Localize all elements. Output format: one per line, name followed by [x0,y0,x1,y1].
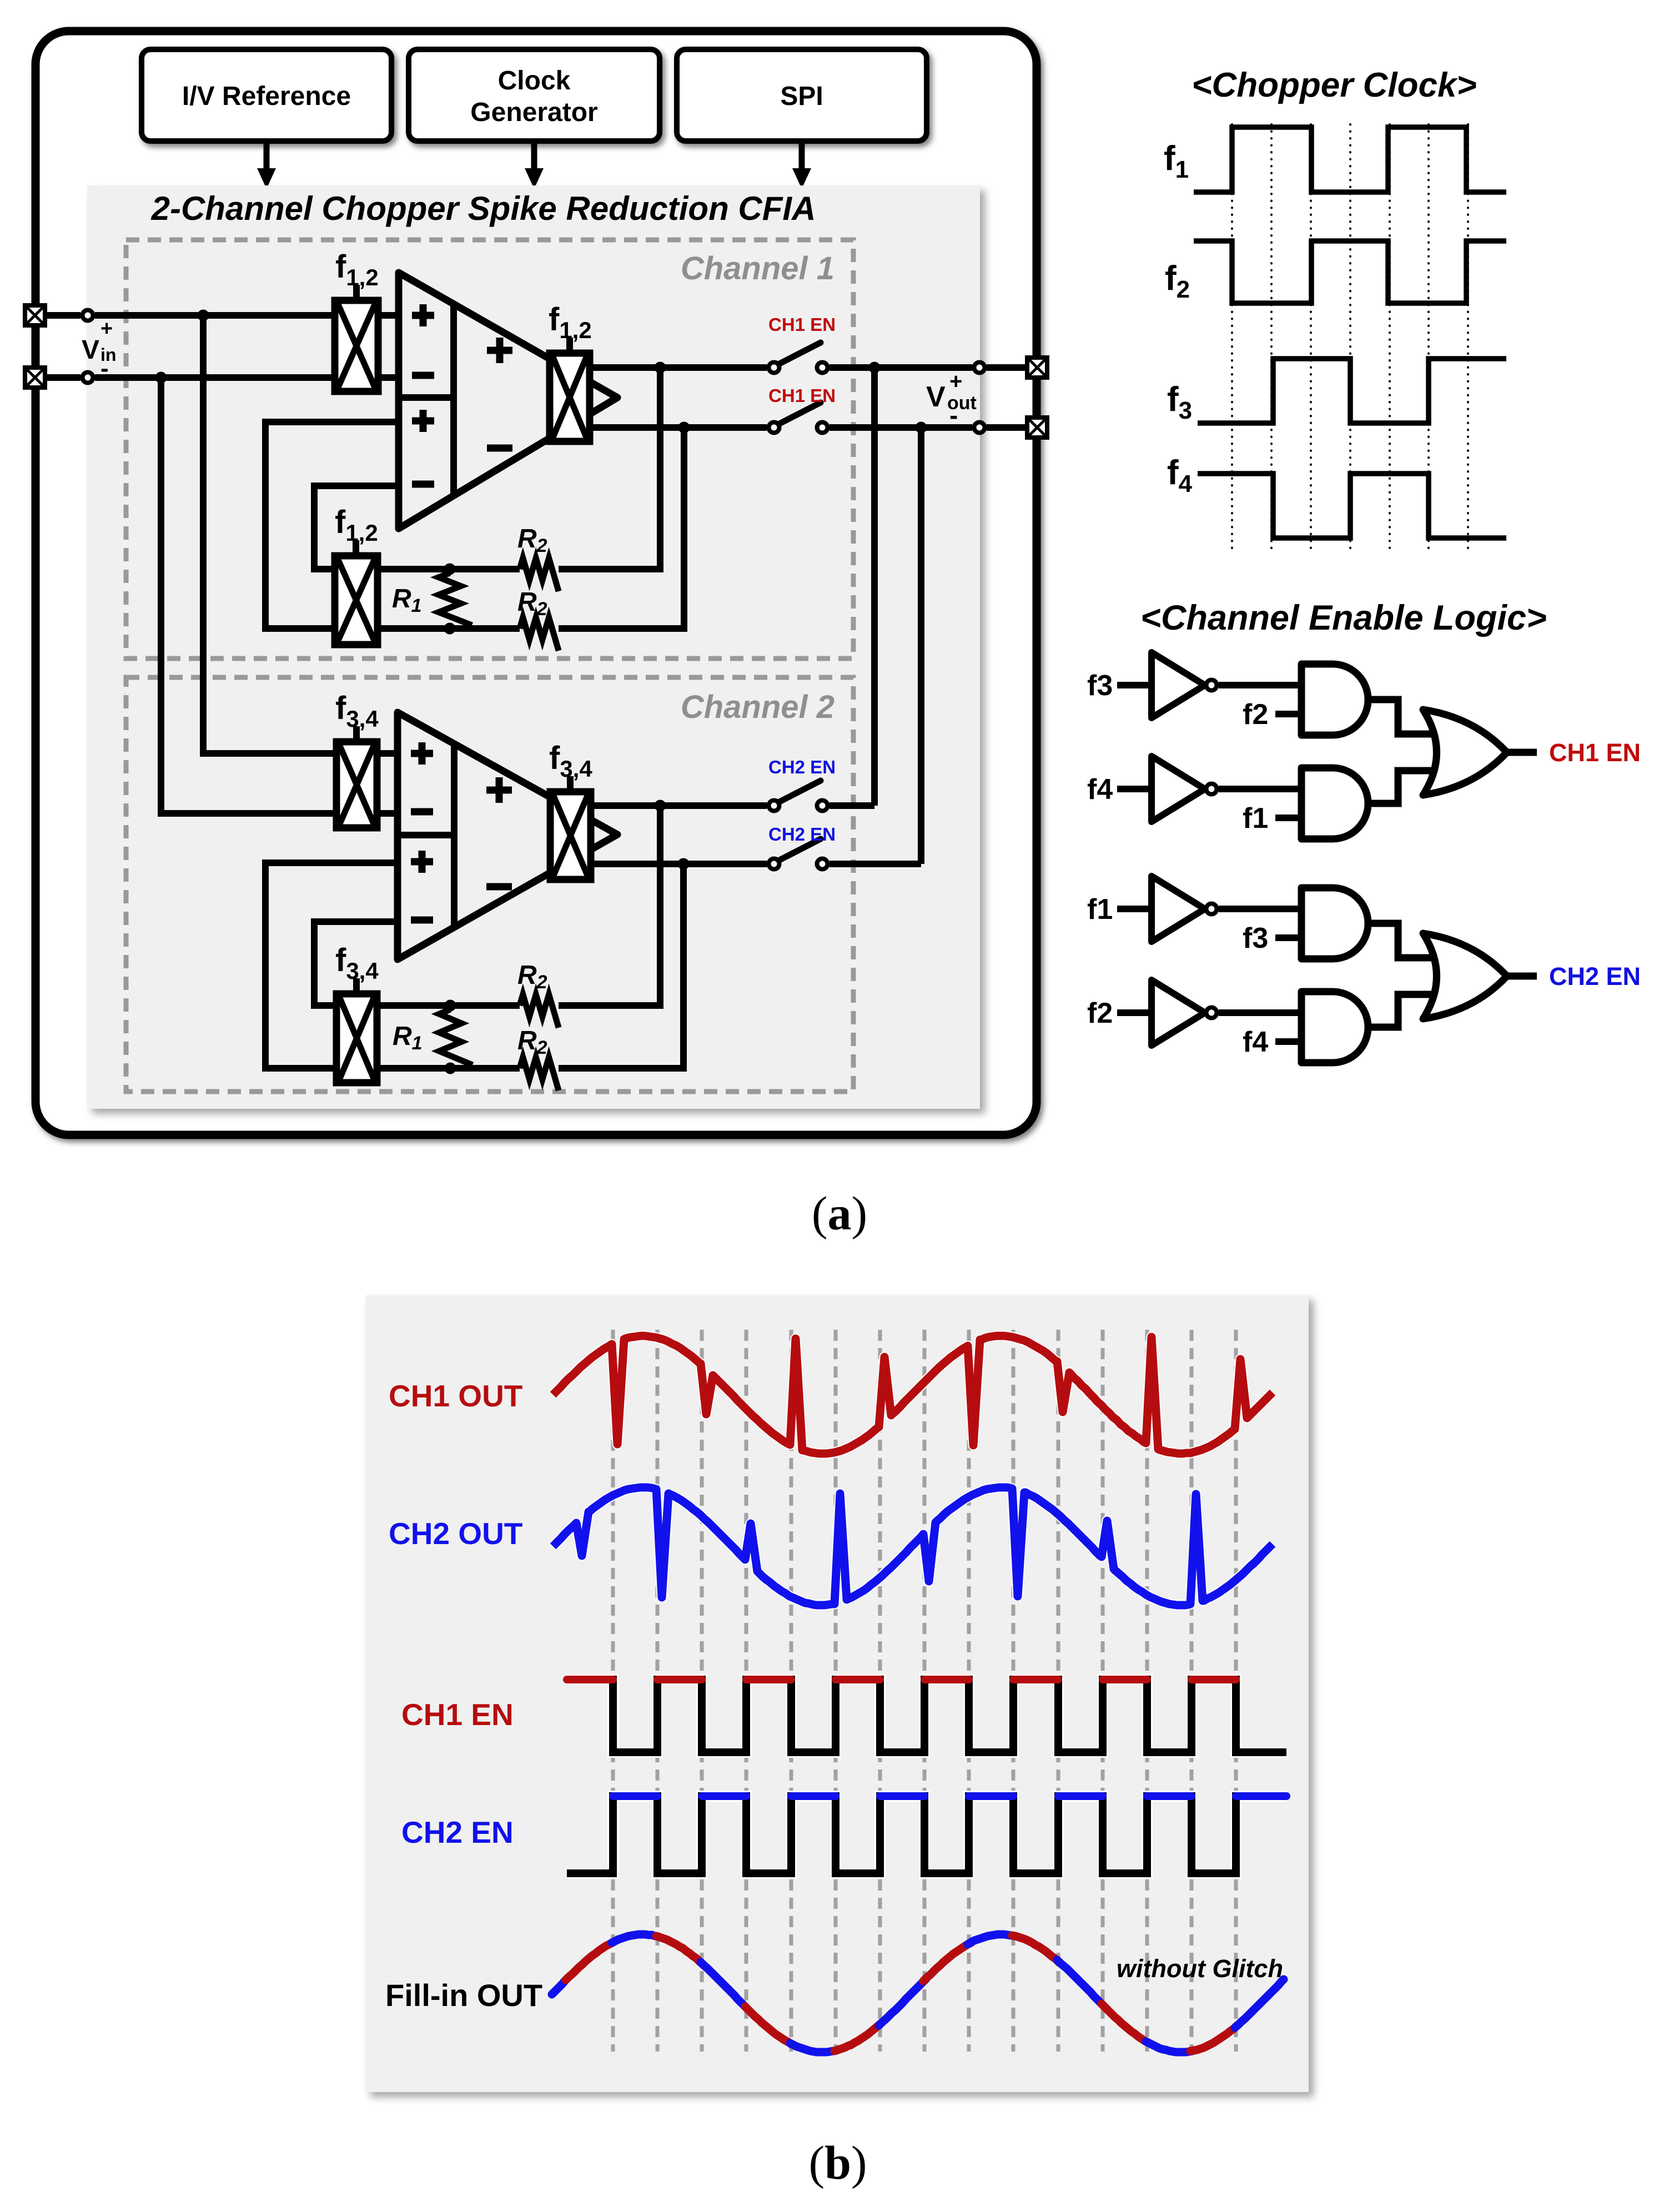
svg-text:V: V [926,381,946,413]
label f1,2 output chopper [549,301,592,353]
wire inverter to AND [1219,682,1301,688]
clock timing dotted gridlines [1232,124,1468,550]
wire R2 top to out+ node ch2 [559,806,660,1006]
wire A1 out+ to switch [590,364,767,371]
chopper CH1 feedback f1,2 [335,556,378,645]
resistor R1 channel2 [439,1009,472,1065]
pad Vin- [25,368,45,388]
panel gridlines [613,1330,1236,2052]
inverter U-f3 [1152,652,1217,718]
arrow from I/V Reference [257,143,276,189]
chopper CH2 input f3,4 [336,742,377,828]
svg-text:CH1 EN: CH1 EN [768,314,836,335]
svg-text:without Glitch: without Glitch [1117,1954,1283,1983]
svg-text:f4: f4 [1087,773,1113,806]
AND gate AND-f4 [1301,992,1368,1063]
op-amp A1 channel 1 [399,273,617,529]
label f3,4 output chopper [549,740,592,792]
resistor R2 channel1 bottom [520,617,559,651]
wire inverter to AND [1219,1009,1301,1016]
terminal circle Vout+ [974,363,985,373]
wire chopper1 out+ to amp [378,312,399,319]
inverter U-f2 [1152,980,1217,1045]
terminal circle Vin+ [83,310,93,321]
svg-text:<Chopper Clock>: <Chopper Clock> [1192,66,1476,104]
svg-text:SPI: SPI [780,82,823,111]
pad Vout- [1027,418,1047,438]
svg-text:CH2 EN: CH2 EN [1549,962,1641,991]
waveform f3 [1198,359,1506,423]
wire inverter to AND [1219,906,1301,912]
junction R1 bottom ch1 [444,623,456,635]
resistor R1 channel1 [439,573,472,625]
svg-text:f2: f2 [1087,997,1113,1029]
wire OR output [1507,749,1537,756]
wire switch to Vout- [829,424,972,431]
inverter U-f1 [1152,876,1217,942]
waveform CH1 OUT [553,1336,1273,1454]
wire f3 input [1275,934,1301,941]
svg-text:2-Channel Chopper Spike Reduct: 2-Channel Chopper Spike Reduction CFIA [151,190,816,227]
junction fb tap out- ch1 [678,422,690,434]
svg-text:(a): (a) [812,1187,867,1240]
pad Vin+ [25,305,45,325]
svg-text:Generator: Generator [470,98,597,127]
waveform CH2 OUT [553,1487,1273,1605]
wire f4 input [1275,1038,1301,1045]
junction fb tap out- ch2 [678,858,690,870]
AND gate AND-f2 [1301,664,1368,735]
svg-text:<Channel Enable Logic>: <Channel Enable Logic> [1140,599,1547,637]
svg-text:CH2 EN: CH2 EN [768,757,836,777]
wire A1 out- to switch [590,424,767,431]
svg-text:V: V [82,335,99,365]
junction fb tap out+ ch1 [655,362,666,374]
wire A1 fb+ to chopper [265,422,399,629]
svg-text:CH2 EN: CH2 EN [768,824,836,844]
wire fb chopper1 to R1/R2 top [378,566,520,572]
wire AND1 to OR [1368,700,1444,734]
waveform panel (b) [365,1295,1309,2092]
wire chopper1 out- to amp [378,374,399,381]
wire to pad Vout+ [987,364,1026,371]
wire f1 input [1117,906,1152,912]
svg-text:CH2 EN: CH2 EN [401,1815,514,1849]
chopper CH2 output f3,4 [550,792,591,879]
terminal circle Vout- [974,423,985,433]
waveform CH1 EN [567,1680,1286,1752]
terminal circle Vin- [83,373,93,383]
junction Vout- node [916,422,927,434]
wire OR output [1507,973,1537,980]
svg-text:f1: f1 [1087,893,1113,926]
Channel 1 dashed box [126,240,853,658]
pad Vout+ [1027,358,1047,378]
label Vin [82,317,116,382]
wire A2 out+ to switch [591,802,767,809]
junction R1 top ch1 [444,564,456,575]
OR gate OR-CH2 EN [1423,933,1507,1019]
wire f1 input [1275,815,1301,821]
svg-text:CH1 EN: CH1 EN [401,1697,514,1732]
wire fb chopper1 to R1/R2 bottom [378,625,520,632]
junction Vin- tap [155,372,167,384]
block SPI [677,49,927,141]
wire Vin- to chopper CH1 [46,374,335,381]
wire AND2 to OR [1368,994,1444,1027]
chopper CH1 input f1,2 [335,300,378,391]
wire R2 bottom to out- node ch2 [559,864,683,1068]
wire Vout- node to CH2 switch [918,428,924,864]
block Clock Generator [409,49,660,141]
junction Vout+ node [869,362,881,374]
switch CH2 EN bottom [769,839,828,869]
svg-text:f1: f1 [1243,802,1268,834]
waveform f2 [1194,241,1506,303]
wire CH2 switch to Vout- riser [829,861,921,867]
svg-text:f3: f3 [1087,670,1113,702]
switch CH1 EN bottom [769,403,828,433]
waveform CH2 EN [567,1796,1286,1873]
wire Vin- tap to chopper CH2 [161,378,336,813]
junction R1 top ch2 [445,1000,456,1012]
junction fb tap out+ ch2 [655,800,666,812]
wire R2 bottom to out- node [559,428,684,629]
wire inverter to AND [1219,786,1301,792]
wire A2 fb+ to chopper [265,863,398,1068]
arrow from Clock Generator [525,143,544,189]
svg-text:f3: f3 [1243,922,1268,954]
label f3,4 input chopper [335,690,379,742]
arrow from SPI [792,143,811,189]
OR gate OR-CH1 EN [1423,710,1507,795]
label f1,2 feedback chopper [335,504,378,556]
svg-text:+: + [100,317,113,340]
CH1 EN red high segments [567,1676,1236,1683]
wire f2 input [1275,711,1301,717]
svg-text:CH1 EN: CH1 EN [1549,738,1641,767]
wire AND1 to OR [1368,923,1444,958]
wire switch to Vout+ [829,364,972,371]
CH2 EN blue high segments [613,1792,1286,1800]
svg-text:-: - [949,401,958,430]
svg-text:I/V Reference: I/V Reference [182,82,351,111]
CFIA grey region [87,185,980,1109]
svg-text:CH1 EN: CH1 EN [768,385,836,406]
svg-text:Channel 1: Channel 1 [681,250,834,286]
AND gate AND-f1 [1301,768,1368,839]
wire f3 input [1117,682,1152,688]
svg-text:-: - [100,355,109,382]
resistor R2 channel2 top [520,994,559,1028]
wire A1 fb- to chopper [314,486,399,569]
inverter U-f4 [1152,756,1217,822]
resistor R2 channel2 bottom [520,1057,559,1090]
switch CH1 EN top [769,343,828,373]
wire Vin+ tap to chopper CH2 [203,315,336,753]
wire f4 input [1117,786,1152,792]
waveform f1 [1194,127,1506,192]
label f3,4 feedback chopper [335,942,379,994]
chopper CH1 output f1,2 [550,353,590,441]
svg-text:CH2 OUT: CH2 OUT [389,1516,522,1551]
wire f2 input [1117,1009,1152,1016]
waveform f4 [1198,474,1506,538]
resistor R2 channel1 top [520,558,559,591]
wire A2 fb- to chopper [314,922,398,1006]
wire Vout+ node to CH2 switch [871,368,878,806]
op-amp A2 channel 2 [398,712,617,959]
wire to pad Vout- [987,424,1026,431]
wire A2 out- to switch [591,861,767,867]
svg-text:+: + [949,369,962,394]
svg-text:Fill-in OUT: Fill-in OUT [385,1978,542,2013]
junction R1 bottom ch2 [445,1063,456,1074]
label f1,2 input chopper [335,249,379,300]
svg-text:(b): (b) [808,2136,867,2189]
waveform Fill-in OUT [552,1934,1284,2052]
wire fb chopper2 to R1/R2 top [377,1002,520,1009]
wire chopper2 out+ to amp [377,750,398,757]
chopper CH2 feedback f3,4 [336,994,377,1083]
Channel 2 dashed box [126,677,853,1092]
switch CH2 EN top [769,781,828,811]
label Vout [926,369,977,430]
wire Vin+ to chopper CH1 [46,312,335,319]
svg-text:Clock: Clock [498,66,571,95]
wire R2 top to out+ node [559,368,660,569]
block I/V Reference [142,49,391,141]
wire chopper2 out- to amp [377,810,398,817]
svg-text:f2: f2 [1243,698,1268,731]
chip outer border [36,31,1037,1135]
svg-text:Channel 2: Channel 2 [681,689,834,725]
wire CH2 switch to Vout+ riser [829,802,874,809]
wire AND2 to OR [1368,771,1444,803]
wire fb chopper2 to R1/R2 bottom [377,1065,520,1072]
svg-text:CH1 OUT: CH1 OUT [389,1379,522,1413]
junction Vin+ tap [198,310,209,321]
svg-text:f4: f4 [1243,1026,1268,1058]
AND gate AND-f3 [1301,888,1368,959]
